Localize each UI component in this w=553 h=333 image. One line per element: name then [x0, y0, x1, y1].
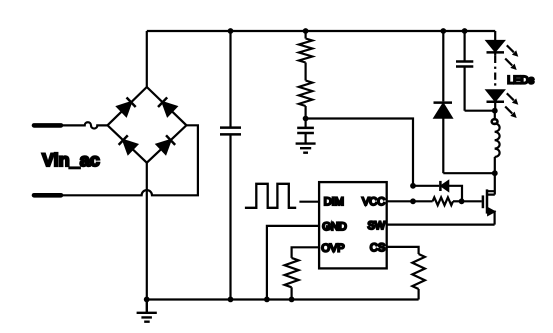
node dot VCC tap [303, 116, 309, 122]
svg-text:Vin_ac: Vin_ac [42, 150, 100, 170]
wire GND pin to ground rail [267, 226, 319, 300]
wire bottom ground rail [147, 298, 419, 300]
capacitor C2 vcc bypass [297, 119, 314, 144]
resistor R1 supply upper [299, 31, 313, 63]
dash-dot more LEDs indicator [494, 52, 496, 87]
inductor L1 [492, 111, 500, 174]
node dot R1 top rail [303, 28, 309, 34]
pin label VCC [362, 196, 385, 208]
wire OVP pin lead [292, 247, 320, 258]
IC U1 box [319, 182, 387, 268]
transistor Q1 MOSFET [483, 173, 495, 224]
pin label CS [370, 242, 385, 254]
bridge diode D4 (bottom-right edge) [157, 135, 176, 154]
ground symbol vcc bypass [296, 144, 316, 153]
svg-text:DIM: DIM [324, 196, 344, 208]
node dot gate net right [459, 198, 465, 204]
wire CS pin lead [387, 247, 419, 254]
label LEDs [507, 75, 534, 87]
ground symbol main [137, 300, 157, 322]
pin label OVP [321, 242, 344, 254]
pin label GND [322, 221, 347, 233]
wire bottom input with hop to bridge right corner [61, 125, 198, 195]
node dot D6 top rail [440, 28, 446, 34]
diode D5 gate speedup [413, 181, 462, 201]
svg-text:CS: CS [370, 242, 385, 254]
input terminal top [34, 123, 61, 128]
pin label SW [367, 220, 385, 232]
wire DIM pin lead [299, 201, 319, 203]
wire VCC pin lead [387, 200, 413, 202]
node dot gate net top [410, 183, 416, 189]
svg-text:LEDs: LEDs [507, 75, 534, 87]
wire bridge bottom corner to ground rail [146, 163, 148, 300]
svg-text:SW: SW [367, 220, 385, 232]
svg-text:OVP: OVP [321, 242, 344, 254]
node dot C3 top rail [462, 28, 468, 34]
bridge diode D2 (right-top edge) [158, 97, 177, 116]
bridge diode D3 (bottom-left edge) [119, 135, 138, 154]
resistor R2 supply lower [299, 81, 313, 119]
input terminal bottom [34, 193, 61, 198]
LED2 [487, 90, 519, 118]
PWM square wave symbol [245, 184, 296, 208]
node dot bridge-ground [144, 297, 150, 303]
wire VCC feed to gate network [306, 119, 413, 186]
wire bridge top corner to top rail [146, 31, 148, 87]
bridge rectifier diamond [108, 87, 187, 163]
bridge diode D1 (left-top edge) [117, 97, 136, 116]
capacitor C1 bulk input [220, 31, 241, 300]
svg-text:GND: GND [322, 221, 347, 233]
capacitor C3 output [456, 31, 495, 111]
node dot LED bottom [492, 108, 498, 114]
node dot gate net bottom [410, 198, 416, 204]
resistor R5 gate [413, 197, 462, 205]
label Vin_ac [42, 150, 100, 170]
LED1 [487, 31, 519, 70]
node dot switch node [492, 170, 498, 176]
wire SW pin to source [387, 224, 495, 226]
node dot C1 ground rail [228, 297, 234, 303]
fuse squiggle [61, 122, 108, 128]
node dot C1 top rail [228, 28, 234, 34]
node dot OVP rail [289, 297, 295, 303]
diode D6 freewheel [434, 31, 453, 173]
wire gate lead [462, 200, 482, 202]
resistor R3 OVP [285, 258, 299, 300]
wire between R1 and R2 [305, 63, 307, 81]
svg-text:VCC: VCC [362, 196, 385, 208]
wire D6 anode to switch node [443, 172, 495, 174]
node dot GND rail [264, 297, 270, 303]
wire top rail [147, 30, 495, 32]
resistor R4 current sense [412, 254, 425, 300]
pin label DIM [324, 196, 344, 208]
